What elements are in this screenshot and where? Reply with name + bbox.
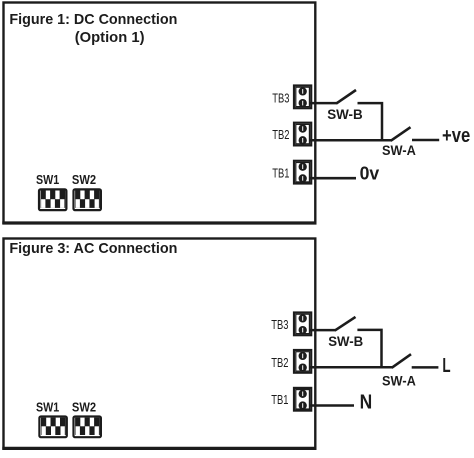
svg-text:L: L [442,355,450,377]
svg-text:N: N [360,392,373,414]
svg-text:Figure 3: AC Connection: Figure 3: AC Connection [9,241,177,257]
svg-text:SW-B: SW-B [327,107,363,122]
DIP switch SW1 (figure 3) [39,417,66,438]
switch SW-B blade (figure 1) [336,90,356,104]
svg-text:TB2: TB2 [272,128,289,142]
switch SW-A blade (figure 1) [391,127,411,141]
svg-text:SW2: SW2 [72,173,96,187]
svg-text:TB1: TB1 [272,166,289,180]
wire SW-B output down to TB2 node (figure 3) [357,330,381,367]
svg-text:TB3: TB3 [271,318,288,332]
svg-text:SW-B: SW-B [328,334,363,349]
wire TB1 to 0v [310,177,356,180]
svg-text:TB3: TB3 [272,92,289,106]
terminal block TB1 (figure 3) [294,388,311,411]
svg-text:Figure 1: DC Connection: Figure 1: DC Connection [9,12,177,28]
terminal block TB2 (figure 3) [294,350,311,373]
svg-text:TB2: TB2 [271,356,288,370]
DIP switch SW2 (figure 1) [74,189,101,210]
svg-text:+ve: +ve [442,125,470,147]
terminal block TB1 (figure 1) [294,161,311,184]
DIP switch SW1 (figure 1) [39,189,66,210]
svg-text:SW1: SW1 [36,400,59,414]
wire TB3 to SW-B (figure 3) [310,329,336,332]
svg-text:SW-A: SW-A [382,373,416,388]
svg-text:SW2: SW2 [72,400,96,414]
wire TB3 to SW-B (figure 1) [310,102,337,105]
wire SW-B output down to TB2 node (figure 1) [358,103,383,140]
svg-text:TB1: TB1 [271,393,288,407]
terminal block TB3 (figure 1) [294,86,311,109]
wire SW-A to +ve [412,139,439,142]
svg-text:0v: 0v [360,163,380,184]
figure 1 box [4,3,316,224]
figure 3 box [4,239,316,449]
wire SW-A to L [412,366,439,369]
wire TB1 to N [310,404,354,407]
wire TB2 to SW-A (figure 3) [310,366,393,369]
wire TB2 to SW-A (figure 1) [310,139,392,142]
switch SW-B blade (figure 3) [335,317,356,331]
DIP switch SW2 (figure 3) [74,417,101,438]
terminal block TB3 (figure 3) [294,313,311,336]
terminal block TB2 (figure 1) [294,123,311,146]
svg-text:SW-A: SW-A [382,143,416,158]
svg-text:SW1: SW1 [36,173,59,187]
switch SW-A blade (figure 3) [392,354,411,368]
svg-text:(Option 1): (Option 1) [75,30,145,46]
